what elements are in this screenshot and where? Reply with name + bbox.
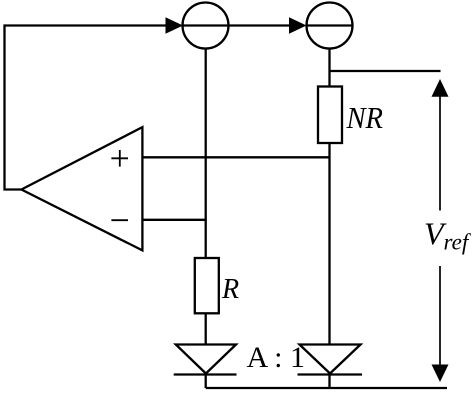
resistor R: [195, 258, 219, 313]
svg-text:Vref: Vref: [424, 216, 472, 255]
wire D1 to bottom rail: [205, 375, 207, 389]
arrowhead into S1: [166, 17, 184, 34]
dimension arrow Vref upper: [432, 79, 449, 211]
wire NR bottom to diode D2: [328, 143, 330, 345]
diode D1: [174, 345, 237, 375]
minus input symbol: [111, 219, 128, 221]
dimension arrow Vref lower: [432, 266, 449, 382]
wire R bottom to diode D1: [205, 313, 207, 344]
svg-text:R: R: [221, 274, 239, 305]
wire inverting input: [142, 219, 206, 221]
wire noninverting input: [142, 156, 329, 158]
svg-text:A : 1: A : 1: [247, 341, 306, 374]
wire through S2: [307, 24, 353, 26]
wire S2 down to resistor NR: [328, 49, 330, 87]
op-amp U1: [21, 127, 142, 250]
plus input symbol: [111, 150, 128, 167]
wire S1 to S2: [229, 24, 290, 26]
current source S1: [183, 3, 229, 49]
resistor NR: [318, 87, 342, 144]
svg-text:NR: NR: [346, 100, 383, 135]
wire feedback (op-amp output to summing node S1): [5, 26, 167, 190]
arrowhead into S2: [289, 17, 307, 34]
current source S2: [307, 3, 353, 49]
wire bottom rail: [206, 387, 447, 389]
wire D2 to bottom rail: [328, 375, 330, 389]
wire node Vref top tap: [330, 70, 441, 72]
wire through S1: [183, 24, 229, 26]
wire S1 down to resistor R: [205, 49, 207, 259]
diode D2: [298, 345, 363, 375]
